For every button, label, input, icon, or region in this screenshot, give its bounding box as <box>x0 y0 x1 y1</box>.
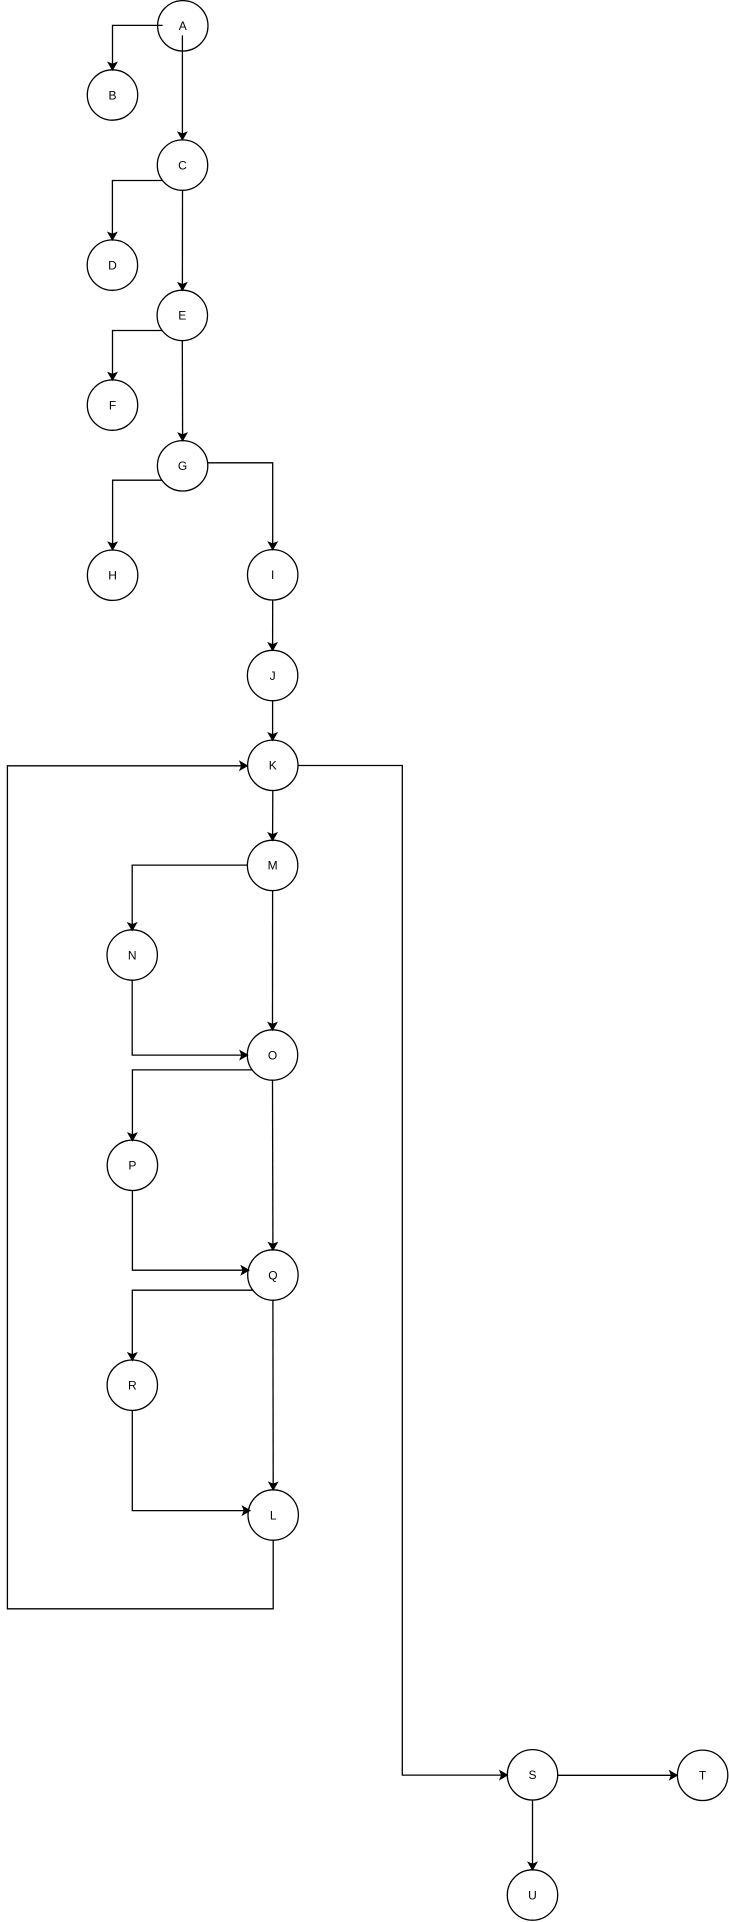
node I <box>248 550 298 600</box>
svg-text:Q: Q <box>268 1268 277 1282</box>
svg-text:D: D <box>108 258 117 272</box>
node T <box>677 1750 727 1800</box>
svg-text:J: J <box>270 669 276 683</box>
wire edge J to K <box>269 701 277 740</box>
node B <box>87 70 137 120</box>
wire edge N to O <box>132 980 247 1059</box>
svg-text:E: E <box>178 309 186 323</box>
wire edge S to U <box>529 1800 537 1870</box>
node K <box>248 740 298 790</box>
wire edge C to D <box>108 181 162 240</box>
svg-text:N: N <box>128 948 137 962</box>
node U <box>507 1870 557 1920</box>
svg-text:U: U <box>528 1888 537 1902</box>
wire edge R to L <box>132 1410 250 1514</box>
node N <box>107 930 157 980</box>
wire edge Q to R <box>128 1290 253 1360</box>
wire edge M to O <box>269 891 277 1030</box>
svg-text:K: K <box>269 759 277 773</box>
wire edge O to P <box>128 1070 252 1141</box>
wire edge K to M <box>269 790 277 840</box>
svg-text:H: H <box>108 569 117 583</box>
svg-text:T: T <box>699 1769 707 1783</box>
node A <box>158 1 208 51</box>
svg-text:C: C <box>178 158 187 172</box>
svg-text:L: L <box>270 1508 277 1522</box>
node R <box>107 1360 157 1410</box>
wire edge O to Q <box>269 1080 277 1250</box>
node L <box>248 1490 298 1540</box>
svg-text:A: A <box>179 19 187 33</box>
svg-text:R: R <box>128 1379 137 1393</box>
wire edge P to Q <box>132 1190 248 1274</box>
node Q <box>248 1250 298 1300</box>
wire edge M to N <box>128 865 247 930</box>
svg-text:I: I <box>271 568 274 582</box>
svg-text:S: S <box>528 1768 536 1782</box>
svg-text:M: M <box>268 859 278 873</box>
node H <box>87 550 137 600</box>
svg-text:F: F <box>109 398 116 412</box>
node E <box>157 290 207 340</box>
wire edge Q to L <box>269 1300 277 1490</box>
svg-text:O: O <box>268 1048 277 1062</box>
wire edge L to K loop <box>7 762 273 1609</box>
wire edge E to F <box>109 331 163 380</box>
wire edge I to J <box>269 600 277 650</box>
node J <box>247 650 297 700</box>
node S <box>507 1750 557 1800</box>
svg-text:P: P <box>128 1159 136 1173</box>
wire edge S to T <box>558 1771 677 1779</box>
node C <box>157 140 207 190</box>
node P <box>107 1140 157 1190</box>
node O <box>247 1030 297 1080</box>
node D <box>87 240 137 290</box>
wire edge K to S <box>298 766 507 1780</box>
node G <box>157 441 207 491</box>
node M <box>247 840 297 890</box>
wire edge A to B <box>109 25 163 69</box>
wire edge E to G <box>179 341 187 441</box>
node F <box>87 380 137 430</box>
svg-text:B: B <box>108 88 116 102</box>
wire edge G to H <box>109 480 162 549</box>
wire edge A to C <box>178 35 186 139</box>
wire edge G to I <box>208 463 277 550</box>
wire edge C to E <box>178 190 186 290</box>
svg-text:G: G <box>178 459 187 473</box>
